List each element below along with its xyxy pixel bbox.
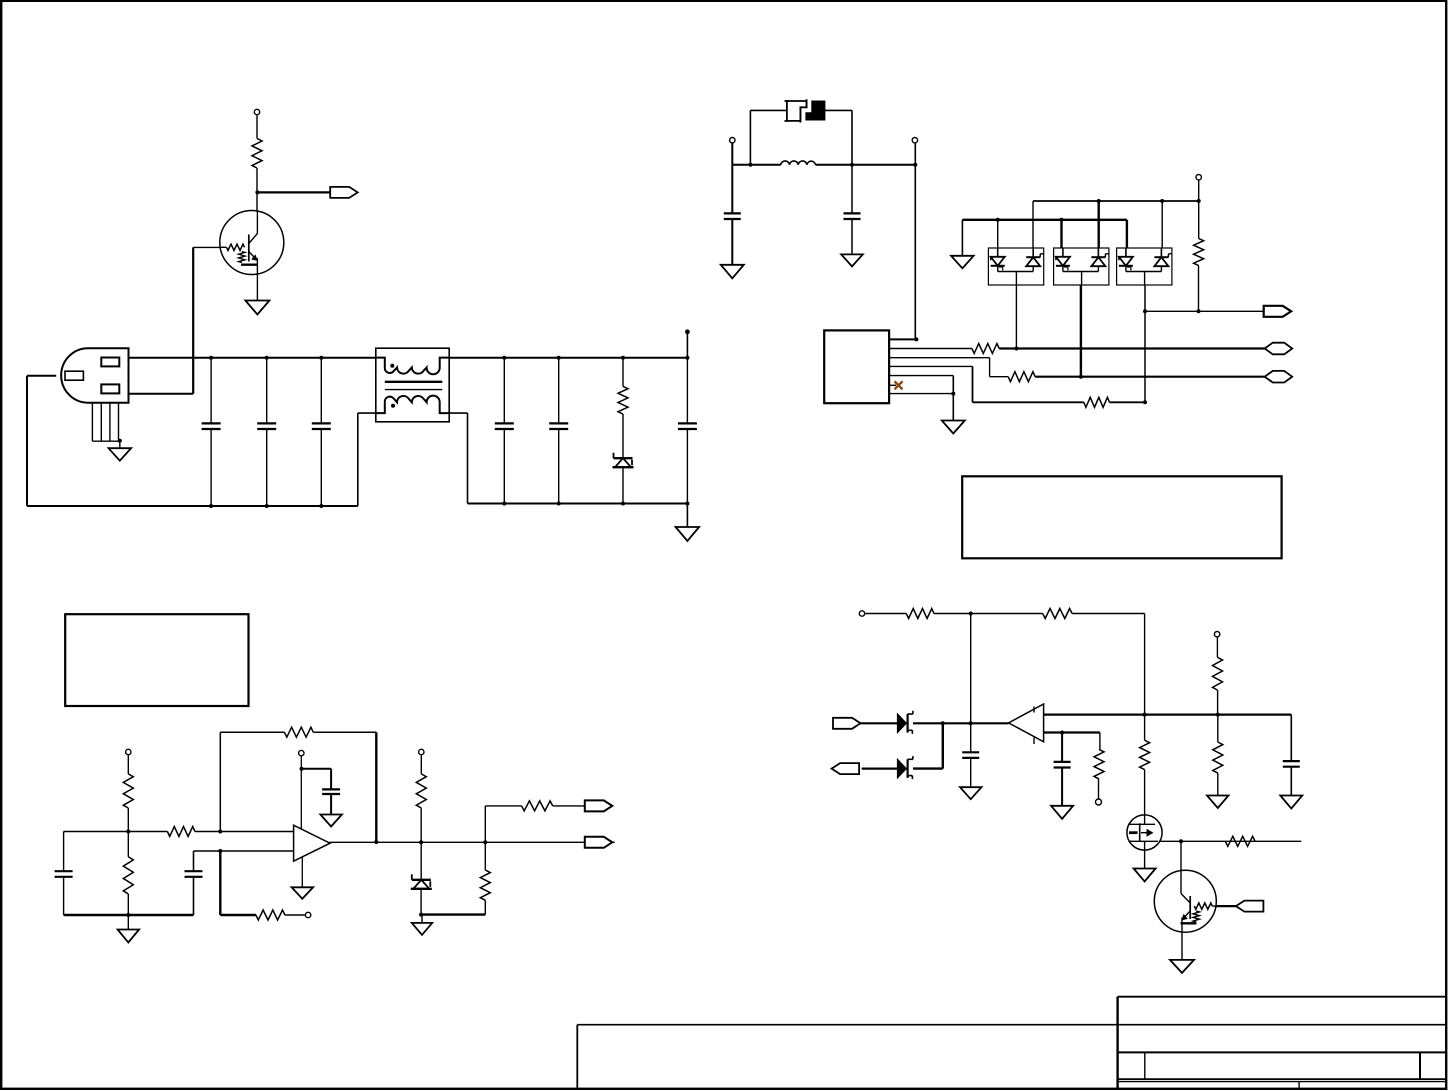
wire comparator + input <box>1044 713 1292 715</box>
terminal T5 <box>126 749 131 754</box>
wire <box>127 808 129 857</box>
terminal T10 <box>1214 632 1219 637</box>
capacitor C9 <box>55 871 73 877</box>
capacitor C12 <box>962 752 979 758</box>
wire <box>1145 310 1264 312</box>
capacitor C4 <box>495 423 514 429</box>
wire <box>129 393 194 395</box>
node junction <box>319 504 323 508</box>
wire <box>1110 401 1146 403</box>
wire output <box>330 841 615 843</box>
fuse F1 <box>785 99 825 122</box>
node junction <box>1179 839 1183 843</box>
wire <box>420 808 422 880</box>
ground <box>1207 796 1229 809</box>
capacitor C13 <box>1283 761 1300 767</box>
wire <box>553 805 585 807</box>
node junction <box>374 840 378 844</box>
wire <box>1181 932 1183 960</box>
wire <box>1072 613 1145 615</box>
node junction <box>319 356 323 360</box>
wire comparator - input <box>1044 731 1100 733</box>
wire <box>622 414 624 458</box>
wire <box>27 375 56 377</box>
wire <box>622 358 624 387</box>
wire <box>1099 733 1101 750</box>
capacitor C3 <box>312 423 331 429</box>
wire <box>313 731 376 733</box>
wire pin7 <box>889 393 953 395</box>
wire <box>558 358 560 504</box>
wire <box>330 769 332 815</box>
wire <box>285 914 305 916</box>
capacitor C1 <box>202 423 221 429</box>
wire op-amp gnd pin <box>301 857 303 887</box>
terminal T2 <box>730 138 735 143</box>
wire <box>420 755 422 774</box>
wire <box>750 109 787 111</box>
node junction <box>419 913 423 917</box>
node junction <box>1197 309 1201 313</box>
signal flag OUT4 <box>585 837 613 848</box>
diode D7 <box>897 756 913 779</box>
ground <box>960 787 982 799</box>
ground <box>320 815 342 827</box>
node junction <box>1216 713 1220 717</box>
wire <box>484 900 486 914</box>
terminal T1 <box>254 109 259 114</box>
wire <box>970 614 972 788</box>
node junction <box>300 767 304 771</box>
wire pin4 <box>889 365 972 367</box>
wire pin3 <box>889 357 990 359</box>
signal flag OUT3 <box>585 800 613 811</box>
wire <box>749 110 751 164</box>
wire <box>1144 841 1146 868</box>
wire <box>129 357 376 359</box>
wire <box>851 165 853 255</box>
capacitor C11 <box>322 789 340 794</box>
node junction <box>621 502 625 506</box>
wire <box>731 165 733 265</box>
wire <box>357 413 359 506</box>
ground <box>942 421 965 434</box>
ground <box>721 265 744 279</box>
wire <box>865 613 906 615</box>
node junction <box>483 840 487 844</box>
wire <box>127 894 129 930</box>
wire <box>1144 614 1146 741</box>
wire <box>1198 266 1200 312</box>
wire <box>119 441 121 448</box>
resistor R14 <box>522 801 553 811</box>
wire <box>851 110 853 164</box>
wire <box>64 831 168 833</box>
wire output <box>860 722 897 724</box>
wire <box>63 832 65 916</box>
net stub dot <box>685 329 690 334</box>
resistor R16 <box>1043 609 1072 619</box>
capacitor C7 <box>724 213 741 219</box>
wire <box>990 376 1009 378</box>
wire <box>195 831 294 833</box>
wire pin5 <box>889 375 953 377</box>
wire <box>1180 841 1182 893</box>
node junction <box>557 356 561 360</box>
resistor R7 <box>123 774 133 808</box>
wire <box>1217 715 1219 742</box>
terminal T6 <box>305 912 310 917</box>
wire <box>220 731 284 733</box>
node junction <box>748 163 752 167</box>
wire <box>193 246 220 248</box>
resistor R2 <box>618 386 628 414</box>
wire <box>1159 840 1301 842</box>
wire <box>825 109 852 111</box>
node junction <box>218 830 222 834</box>
wire <box>1290 715 1292 796</box>
wire <box>194 850 294 852</box>
comparator U3 <box>1009 704 1044 744</box>
resistor R17 <box>1213 657 1223 690</box>
node junction <box>265 504 269 508</box>
wire <box>997 220 999 248</box>
no-connect pin6 <box>889 381 902 389</box>
node junction <box>1197 199 1201 203</box>
wire feedback <box>219 732 221 831</box>
wire <box>961 220 963 256</box>
wire <box>358 412 376 414</box>
IC U1 <box>824 330 889 403</box>
wire <box>485 805 521 807</box>
inductor L1 <box>781 161 816 165</box>
resistor R15 <box>906 609 934 619</box>
resistor R6 <box>1194 238 1204 265</box>
wire <box>503 358 505 504</box>
ground <box>951 256 974 268</box>
ground <box>1280 796 1302 809</box>
signal flag OUT5 <box>832 763 860 774</box>
resistor R12 <box>416 774 426 808</box>
node junction <box>1143 713 1147 717</box>
resistor R9 <box>167 827 195 837</box>
node junction <box>1060 218 1064 222</box>
node junction <box>502 502 506 506</box>
signal flag IN1 <box>833 718 861 729</box>
wire <box>1198 180 1200 238</box>
wire <box>732 164 781 166</box>
wire <box>467 413 469 503</box>
terminal T8 <box>419 749 424 754</box>
diode D6 <box>897 711 913 734</box>
wire top bus <box>1033 200 1199 202</box>
node junction <box>126 913 130 917</box>
wire <box>449 357 687 359</box>
wire <box>731 143 733 164</box>
node junction <box>951 392 955 396</box>
node junction <box>914 337 918 341</box>
node junction <box>1079 375 1083 379</box>
transformer T1 <box>376 348 449 422</box>
wire <box>420 913 485 915</box>
resistor R1 <box>252 139 262 169</box>
resistor R3 <box>972 344 999 354</box>
zener diode D1 <box>613 453 634 468</box>
node junction <box>1143 309 1147 313</box>
wire <box>420 889 422 915</box>
wire <box>1216 905 1236 907</box>
wire <box>989 358 991 377</box>
terminal T11 <box>1096 799 1102 805</box>
node junction <box>557 502 561 506</box>
ground <box>841 254 863 266</box>
wire <box>1060 220 1062 248</box>
node junction <box>118 439 122 443</box>
wire <box>686 358 688 504</box>
node junction <box>419 840 423 844</box>
wire <box>1080 285 1082 377</box>
wire <box>256 168 258 212</box>
wire <box>686 504 688 528</box>
wire <box>193 851 195 915</box>
node junction <box>209 504 213 508</box>
transistor Q3 <box>1154 870 1216 932</box>
wire <box>973 401 1084 403</box>
ground <box>676 527 700 541</box>
wire <box>192 247 194 393</box>
wire <box>952 376 954 421</box>
bidir flag PH1 <box>1265 343 1293 355</box>
wire <box>1098 779 1100 799</box>
wire <box>816 164 916 166</box>
wire <box>942 723 944 768</box>
wire <box>914 143 916 339</box>
terminal T9 <box>859 611 864 616</box>
wire <box>220 914 256 916</box>
wire <box>934 613 1043 615</box>
AC power plug J1 <box>61 348 128 441</box>
wire pin2 <box>889 348 972 350</box>
note box <box>65 614 248 706</box>
ground <box>1134 869 1156 882</box>
ground <box>109 448 132 461</box>
capacitor C14 <box>1054 762 1071 768</box>
node junction <box>209 356 213 360</box>
wire <box>972 366 974 402</box>
terminal T4 <box>1196 175 1201 180</box>
wire <box>375 732 377 842</box>
title block <box>577 997 1446 1090</box>
wire <box>1032 201 1034 248</box>
resistor R5 <box>1084 397 1110 407</box>
capacitor C6 <box>678 423 697 429</box>
node junction <box>685 356 689 360</box>
wire <box>1144 770 1146 825</box>
wire <box>300 756 302 829</box>
resistor R21 <box>1225 836 1255 846</box>
resistor R8 <box>123 857 133 894</box>
node junction <box>969 721 973 725</box>
signal flag IN2 <box>1236 901 1264 912</box>
wire <box>256 115 258 138</box>
wire <box>1216 637 1218 657</box>
wire <box>1217 773 1219 795</box>
resistor R13 <box>480 870 490 900</box>
wire <box>999 347 1264 349</box>
ground <box>1170 960 1194 973</box>
wire <box>913 722 1009 724</box>
wire <box>862 767 898 769</box>
wire <box>686 333 688 358</box>
zener diode D5 <box>411 874 432 889</box>
ground <box>412 923 432 935</box>
wire <box>622 467 624 503</box>
bidir flag PH2 <box>1265 371 1293 383</box>
capacitor C8 <box>844 213 861 219</box>
dual diode D2 <box>988 248 1044 285</box>
capacitor C5 <box>549 423 568 429</box>
wire <box>1161 201 1163 248</box>
wire <box>421 915 423 923</box>
wire second bus <box>962 219 1127 221</box>
wire <box>127 755 129 774</box>
resistor R4 <box>1008 372 1035 382</box>
node junction <box>1014 347 1018 351</box>
resistor R11 <box>256 910 285 920</box>
wire <box>257 191 330 193</box>
node junction <box>913 163 917 167</box>
node junction <box>126 830 130 834</box>
node junction <box>685 502 689 506</box>
wire <box>484 806 486 870</box>
node junction <box>621 356 625 360</box>
node junction <box>850 163 854 167</box>
resistor R10 <box>284 727 313 737</box>
node junction <box>502 356 506 360</box>
wire <box>266 358 268 506</box>
wire <box>913 767 943 769</box>
node junction <box>1060 731 1064 735</box>
wire pin1 <box>889 338 916 340</box>
resistor R20 <box>1140 740 1150 769</box>
wire <box>1097 201 1099 248</box>
node junction <box>996 218 1000 222</box>
wire <box>1015 285 1017 349</box>
wire <box>27 505 358 507</box>
wire <box>210 358 212 506</box>
wire <box>1126 220 1128 248</box>
dual diode D4 <box>1117 248 1173 285</box>
node junction <box>218 849 222 853</box>
wire <box>219 851 221 915</box>
ground <box>118 930 140 943</box>
wire <box>302 768 332 770</box>
op-amp U2 <box>294 825 330 861</box>
terminal T7 <box>299 750 304 755</box>
wire <box>1144 285 1146 402</box>
ground <box>245 301 269 315</box>
wire <box>1061 733 1063 806</box>
dual diode D3 <box>1054 248 1110 285</box>
wire <box>1217 690 1219 715</box>
ground <box>1051 806 1073 819</box>
resistor R18 <box>1213 742 1223 773</box>
capacitor C2 <box>257 423 276 429</box>
wire <box>256 274 258 300</box>
wire <box>449 412 467 414</box>
node junction <box>1097 199 1101 203</box>
wire <box>1035 376 1265 378</box>
terminal T3 <box>912 138 917 143</box>
wire <box>64 914 194 916</box>
node junction <box>941 721 945 725</box>
transistor Q1 <box>220 211 284 275</box>
signal flag OUT1 <box>330 187 358 198</box>
node junction <box>1143 400 1147 404</box>
ground <box>292 887 314 899</box>
signal flag OUT2 <box>1264 306 1292 317</box>
node junction <box>265 356 269 360</box>
node A junction <box>255 190 259 194</box>
wire <box>26 376 28 506</box>
node junction <box>969 612 973 616</box>
node junction <box>1160 199 1164 203</box>
wire <box>468 503 688 505</box>
note box <box>962 476 1281 558</box>
capacitor C10 <box>185 871 203 877</box>
MOSFET Q2 <box>1127 815 1162 850</box>
wire <box>320 358 322 506</box>
resistor R19 <box>1094 749 1104 779</box>
